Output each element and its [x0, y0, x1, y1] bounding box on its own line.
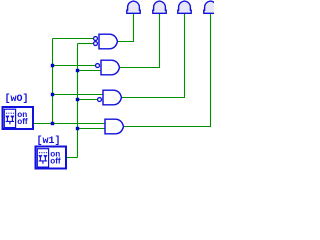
junction dot w1 riser / row4 bottom — [76, 127, 79, 130]
junction dot w0 riser / row3 top — [51, 93, 54, 96]
switch w1 icon lever figures — [39, 155, 47, 164]
switch w0 icon box — [4, 109, 15, 127]
gate U1 input bubble bottom — [94, 42, 98, 46]
wire row3 top: riser to gate U3 top input — [53, 94, 104, 96]
wire w0 net vertical riser — [52, 39, 54, 124]
wire w1 net vertical riser — [77, 44, 79, 158]
svg-text:off: off — [17, 117, 28, 126]
output bell O1 — [153, 1, 166, 13]
switch w1 icon box — [37, 149, 48, 167]
wire row2 top: riser to gate U2 top bubble — [53, 65, 96, 67]
switch w1 outer box — [36, 147, 67, 169]
wire w1 net: switch w1 output to riser — [67, 157, 78, 159]
gate U3: AND with inverted bottom input (body) — [103, 90, 122, 105]
switch w0 icon dash row — [6, 112, 14, 114]
gate U1: AND with two inverted inputs (body) — [99, 34, 118, 49]
gate U2: AND with inverted top input (body) — [101, 60, 120, 75]
wire w0 net: switch w0 output across to gate U4 top input — [34, 123, 106, 125]
wire gate U3 output up to bell O2 — [122, 13, 185, 98]
wire row1 top: riser to gate U1 top bubble — [53, 38, 94, 40]
switch w0 icon lever figures — [6, 116, 14, 125]
output bell O0 — [127, 1, 140, 13]
wire gate U2 output up to bell O1 — [120, 13, 160, 68]
svg-text:off: off — [50, 157, 61, 166]
gate U2 input bubble top — [96, 64, 100, 68]
output bell O3 — [204, 1, 217, 13]
wire row2 bottom: riser to gate U2 bottom input — [78, 70, 102, 72]
junction dot w1 riser / row3 bottom — [76, 98, 79, 101]
switch w0 outer box — [3, 107, 34, 129]
gate U3 input bubble bottom — [98, 98, 102, 102]
svg-text:[wO]: [wO] — [5, 93, 29, 105]
wire gate U4 output up to bell O3 — [124, 13, 211, 127]
svg-text:[w1]: [w1] — [37, 135, 61, 147]
wire row4 bottom: riser to gate U4 bottom input — [78, 128, 106, 130]
junction dot w1 riser / row2 bottom — [76, 69, 79, 72]
junction dot w0 riser / w0 horizontal — [51, 122, 54, 125]
wire row3 bottom: riser to gate U3 bottom bubble — [78, 99, 98, 101]
junction dot w0 riser / row2 top — [51, 64, 54, 67]
wire row1 bottom: riser to gate U1 bottom bubble — [78, 43, 94, 45]
wire gate U1 output up to bell O0 — [118, 13, 134, 42]
output bell O2 — [178, 1, 191, 13]
switch w1 icon dash row — [39, 152, 47, 154]
gate U4: plain AND gate (body) — [105, 119, 124, 134]
gate U1 input bubble top — [94, 37, 98, 41]
